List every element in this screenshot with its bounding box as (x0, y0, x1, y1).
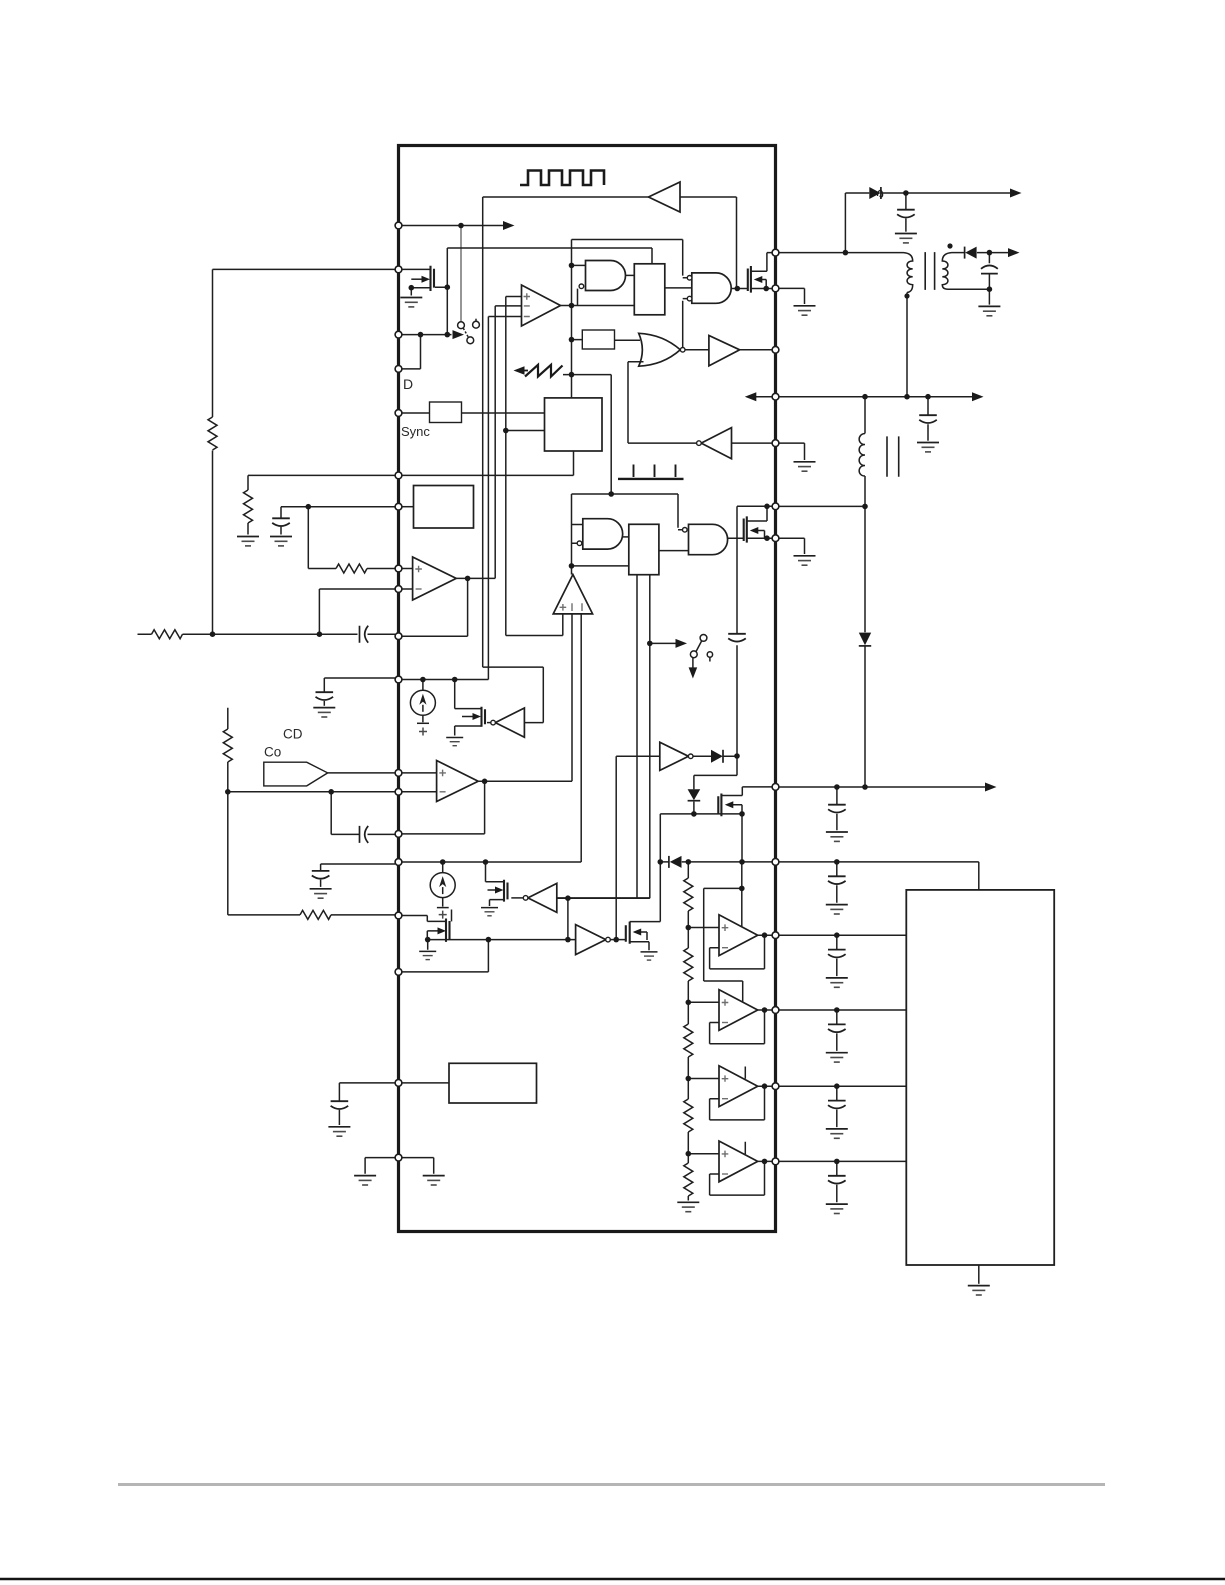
svg-text:Co: Co (264, 745, 281, 760)
svg-text:D: D (403, 376, 413, 392)
svg-text:Sync: Sync (401, 424, 430, 439)
svg-text:CD: CD (283, 727, 303, 742)
